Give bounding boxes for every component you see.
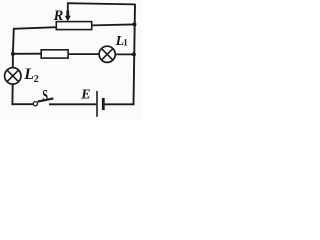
wire: left rail upper [13,28,14,68]
wire: row2 left (left rail to resistor) [13,53,41,55]
wire: right rail [134,4,136,105]
wire: resistor to lamp L1 [68,53,99,55]
junction dot: row1 / right rail [132,22,136,26]
lamp L1 [99,46,115,62]
junction dot: row2 / left rail [11,52,15,56]
wire: left rail lower [11,84,13,105]
label L1 [115,34,129,49]
switch S lever [38,98,54,101]
wire: top rail [67,3,135,4]
svg-text:L: L [23,66,34,83]
svg-text:1: 1 [123,38,128,48]
svg-text:R: R [53,8,64,24]
wire: bottom left (to switch) [12,103,34,105]
wire: bottom middle (switch to battery) [49,103,96,105]
wire: slider riser to top rail [67,3,69,11]
wire: row1 left (left rail corner to rheostat) [13,27,57,29]
svg-text:E: E [80,87,90,102]
battery E long plate [96,91,98,117]
battery E short plate [102,98,105,110]
wire: lamp L1 to right rail [115,53,134,55]
switch S hinge [33,102,37,106]
resistor body (row2) [41,50,68,58]
svg-text:S: S [42,87,48,104]
rheostat R body [56,22,91,30]
wire: row1 right (rheostat to right rail) [92,24,135,25]
lamp L2 [5,68,21,84]
svg-text:2: 2 [34,74,39,85]
wire: bottom right (battery to right rail) [105,103,135,105]
junction dot: row2 / right rail [132,52,136,56]
rheostat R slider arrow [65,11,71,22]
label L2 [23,66,39,85]
